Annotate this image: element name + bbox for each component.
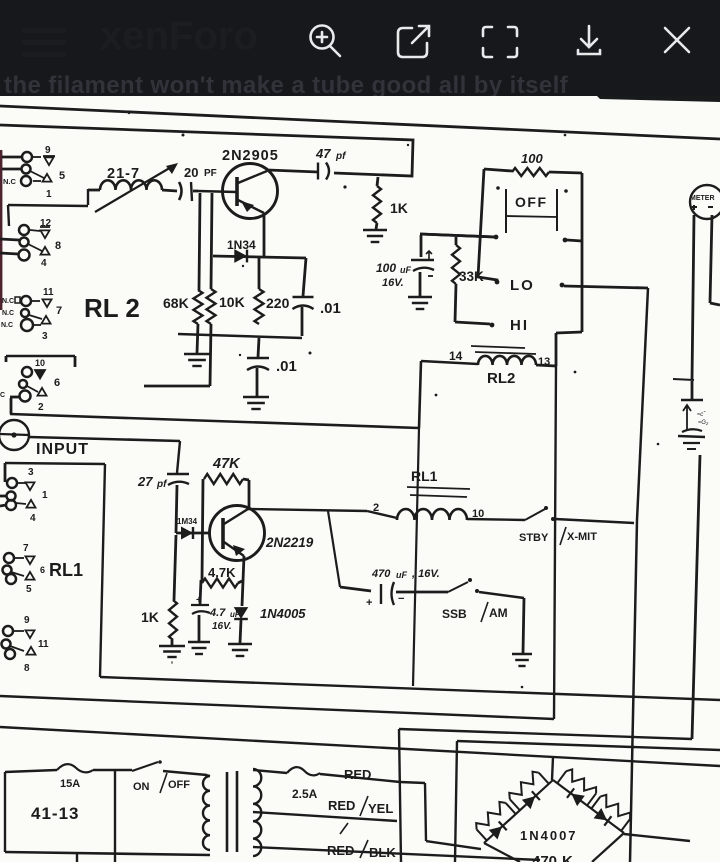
diode 1N4005	[234, 606, 306, 643]
svg-text:1K: 1K	[390, 200, 408, 216]
capacitor .01 (emitter bypass)	[247, 338, 297, 396]
wire bus L2	[0, 696, 554, 719]
capacitor 100uF 16V	[376, 235, 434, 296]
svg-text:.01: .01	[320, 300, 341, 317]
resistor 47K	[202, 456, 249, 580]
svg-text:N.C: N.C	[3, 177, 17, 186]
svg-text:4: 4	[41, 258, 47, 269]
dark scan corner top-right	[597, 96, 720, 102]
relay RL1 contact group A	[0, 467, 48, 524]
wire switch box right side	[581, 173, 584, 332]
svg-text:1N4005: 1N4005	[260, 606, 306, 621]
svg-text:9: 9	[24, 615, 30, 626]
svg-text:.01: .01	[276, 358, 297, 375]
switch ON/OFF	[132, 760, 207, 793]
svg-text:YEL: YEL	[368, 801, 393, 816]
svg-text:RL1: RL1	[411, 468, 438, 484]
relay RL2 contact group 3	[1, 287, 62, 342]
svg-text:RL2: RL2	[487, 370, 515, 387]
svg-text:470: 470	[532, 853, 557, 862]
svg-text:7: 7	[23, 543, 29, 554]
wire collector output	[248, 509, 367, 511]
wire bridge right out	[624, 834, 690, 841]
capacitor 470uF 16V	[366, 568, 448, 609]
wire contact bus to coil	[8, 205, 88, 226]
svg-text:4.7K: 4.7K	[208, 565, 236, 580]
box 41-13	[5, 770, 210, 862]
variable capacitor 20pF	[95, 163, 217, 212]
ground for meter cap	[678, 436, 705, 449]
svg-text:4: 4	[30, 513, 36, 524]
svg-text:33K: 33K	[459, 269, 484, 284]
wire bus L1	[100, 677, 720, 700]
switch HI	[455, 317, 529, 334]
transformer T1 core	[227, 771, 237, 852]
svg-text:10: 10	[35, 358, 45, 368]
svg-text:11: 11	[38, 639, 49, 650]
wire RED	[320, 767, 400, 782]
svg-text:uF: uF	[400, 265, 411, 275]
fuse 15A	[5, 764, 132, 790]
svg-text:220: 220	[266, 295, 290, 311]
wire bus L3	[399, 729, 692, 739]
resistor 220	[255, 258, 290, 324]
svg-text:≈cˇ: ≈cˇ	[697, 412, 706, 418]
svg-text:−: −	[398, 593, 404, 605]
svg-text:1: 1	[46, 189, 52, 200]
svg-text:AM: AM	[489, 606, 508, 620]
svg-text:1М34: 1М34	[177, 517, 198, 526]
svg-text:RED: RED	[328, 798, 355, 813]
wire vertical x457 down	[455, 741, 457, 862]
svg-text:METER: METER	[690, 195, 715, 202]
svg-text:N.C: N.C	[2, 298, 14, 305]
relay RL2 contact group 2	[0, 218, 61, 269]
wire meter leads	[692, 215, 720, 380]
svg-text:OFF: OFF	[515, 194, 548, 210]
svg-text:47K: 47K	[212, 456, 241, 472]
ground for 1K top	[363, 223, 387, 242]
svg-text:7: 7	[56, 305, 62, 317]
page border line (scan edge)	[0, 106, 720, 139]
wire RL1 contact bus	[5, 463, 105, 677]
diode 1N34 (osc)	[213, 238, 306, 262]
svg-text:4.7: 4.7	[209, 607, 226, 619]
ground for 1K lower	[159, 640, 185, 663]
relay RL2 contact group 1	[2, 145, 65, 200]
inductor 21-7 (variable)	[88, 166, 177, 205]
svg-text:ON: ON	[133, 781, 150, 793]
svg-text:RL 2: RL 2	[84, 293, 140, 323]
wire LO output down right side	[630, 288, 648, 862]
svg-text:5: 5	[59, 170, 65, 182]
label RL1	[40, 560, 83, 580]
svg-text:BLK: BLK	[369, 845, 396, 860]
wire top rail to output	[0, 125, 413, 176]
capacitor 47pf	[315, 146, 347, 180]
fuse 2.5A	[253, 767, 320, 801]
switch STBY/X-MIT	[519, 506, 634, 545]
resistor 1K (lower)	[141, 535, 177, 640]
svg-text:+: +	[366, 597, 372, 609]
svg-text:6: 6	[40, 565, 45, 575]
bridge rectifier 1N4007	[476, 769, 630, 862]
switch OFF	[420, 186, 582, 242]
svg-text:5: 5	[26, 584, 32, 595]
wire RL2 pin13 up to switch	[536, 332, 582, 366]
ground for 100uF	[408, 297, 432, 309]
wire 100uF node	[420, 234, 496, 237]
ground for SSB/AM	[512, 654, 532, 666]
wire RED/YEL	[253, 796, 397, 834]
svg-text:2: 2	[38, 402, 44, 413]
svg-text:16V.: 16V.	[382, 277, 404, 289]
svg-text:LO: LO	[510, 277, 535, 294]
svg-text:pf: pf	[335, 151, 347, 162]
svg-text:3: 3	[42, 331, 48, 342]
wire 470uF tap	[328, 511, 371, 591]
wire switch box left side	[478, 169, 497, 283]
transistor Q2 2N2219	[210, 506, 314, 561]
wire emitter down	[242, 556, 244, 606]
svg-text:27: 27	[137, 474, 153, 489]
wire 27pf to base node	[176, 485, 177, 533]
svg-text:N.C: N.C	[1, 322, 13, 329]
wire RL2 pin14 drop	[419, 361, 478, 428]
svg-text:K: K	[562, 853, 573, 862]
wire 10K bottom L	[144, 324, 211, 386]
wire base node down (two verticals)	[199, 193, 212, 290]
relay coil RL1	[367, 468, 525, 520]
svg-text:1: 1	[42, 490, 48, 501]
svg-text:41-13: 41-13	[31, 804, 79, 823]
svg-text:11: 11	[43, 287, 54, 298]
svg-text:9: 9	[45, 145, 51, 156]
transformer T1 primary	[203, 775, 210, 850]
relay RL1 contact group C	[2, 615, 50, 674]
wire collector to 47pf	[268, 170, 318, 172]
wire 20pF to base	[193, 190, 198, 193]
capacitor 4.7uF 16V	[191, 580, 241, 641]
input jack J1	[0, 420, 89, 458]
svg-text:RED: RED	[344, 767, 371, 782]
svg-text:C: C	[0, 392, 5, 399]
wire bus L5	[0, 727, 720, 766]
resistor 10K	[207, 289, 245, 324]
svg-text:RL1: RL1	[49, 560, 83, 580]
svg-text:X-MIT: X-MIT	[567, 531, 597, 543]
svg-text:PF: PF	[204, 168, 217, 179]
wire bus L4	[457, 741, 720, 750]
transistor Q1 2N2905	[198, 148, 279, 219]
svg-text:HI: HI	[510, 317, 529, 334]
wire RED jog to bridge	[400, 782, 481, 849]
ground for 68K	[184, 324, 210, 366]
capacitor meter bypass	[673, 379, 709, 432]
ground for .01	[243, 397, 269, 409]
diode 1N34 (lower)	[176, 517, 210, 539]
svg-text:8: 8	[55, 240, 61, 252]
svg-text:uF: uF	[396, 570, 407, 580]
svg-text:100: 100	[521, 151, 543, 166]
svg-text:uF: uF	[230, 610, 241, 619]
meter M1	[690, 185, 720, 219]
svg-text:N.C: N.C	[2, 310, 14, 317]
svg-text:10K: 10K	[219, 294, 245, 310]
svg-text:STBY: STBY	[519, 532, 549, 544]
ground for 1N4005	[228, 644, 252, 656]
svg-text:pf: pf	[156, 479, 168, 490]
svg-text:≈G₂: ≈G₂	[698, 420, 709, 426]
svg-text:6: 6	[54, 377, 60, 389]
resistor 1K (top)	[373, 177, 408, 223]
svg-text:1N4007: 1N4007	[520, 828, 578, 843]
resistor 33K	[452, 237, 484, 322]
scan edge maroon strip	[0, 150, 2, 310]
svg-text:1N34: 1N34	[227, 238, 256, 252]
wire bridge top feed	[552, 757, 553, 780]
svg-text:1K: 1K	[141, 609, 159, 625]
svg-text:470: 470	[371, 568, 391, 580]
svg-text:INPUT: INPUT	[36, 441, 89, 458]
switch LO	[495, 277, 648, 294]
svg-text:2.5A: 2.5A	[292, 787, 318, 801]
svg-text:14: 14	[449, 349, 463, 363]
wire RF box bottom rail	[10, 414, 419, 428]
capacitor .01 (feedback)	[293, 258, 341, 336]
wire vertical x399 down	[399, 729, 401, 862]
resistor 100	[484, 151, 582, 176]
relay coil RL2	[449, 346, 550, 387]
svg-text:15A: 15A	[60, 778, 80, 790]
wire emitter down	[263, 214, 266, 256]
capacitor 27pf	[137, 474, 189, 490]
svg-text:3: 3	[28, 467, 34, 478]
svg-text:SSB: SSB	[442, 607, 467, 621]
wire RED/BLK	[253, 840, 540, 860]
svg-text:2N2219: 2N2219	[265, 535, 314, 550]
wire collector net down (x554)	[554, 366, 556, 719]
ground for 4.7uF	[188, 642, 210, 654]
svg-text:OFF: OFF	[168, 779, 190, 791]
svg-text:2N2905: 2N2905	[222, 148, 279, 164]
svg-text:68K: 68K	[163, 295, 189, 311]
resistor 4.7K	[202, 565, 242, 588]
wire RL2 pin14 bus down	[413, 428, 419, 686]
relay RL2 contact group 4	[0, 356, 75, 414]
switch SSB/AM	[442, 578, 524, 653]
svg-text:47: 47	[315, 146, 331, 161]
wire right column down	[692, 455, 700, 739]
svg-text:RED: RED	[327, 843, 354, 858]
relay RL1 contact group B	[3, 543, 35, 595]
scan speckles	[128, 112, 660, 689]
wire bottom rail of divider	[178, 334, 302, 338]
label RL2 (left)	[84, 293, 140, 323]
transformer T1 secondary	[253, 769, 261, 856]
wire input to 27pf	[29, 437, 180, 473]
svg-text:8: 8	[24, 663, 30, 674]
svg-text:100: 100	[376, 261, 396, 275]
svg-text:21-7: 21-7	[107, 166, 140, 182]
resistor 68K	[163, 290, 203, 324]
svg-text:20: 20	[184, 165, 198, 180]
svg-text:16V.: 16V.	[212, 621, 232, 632]
